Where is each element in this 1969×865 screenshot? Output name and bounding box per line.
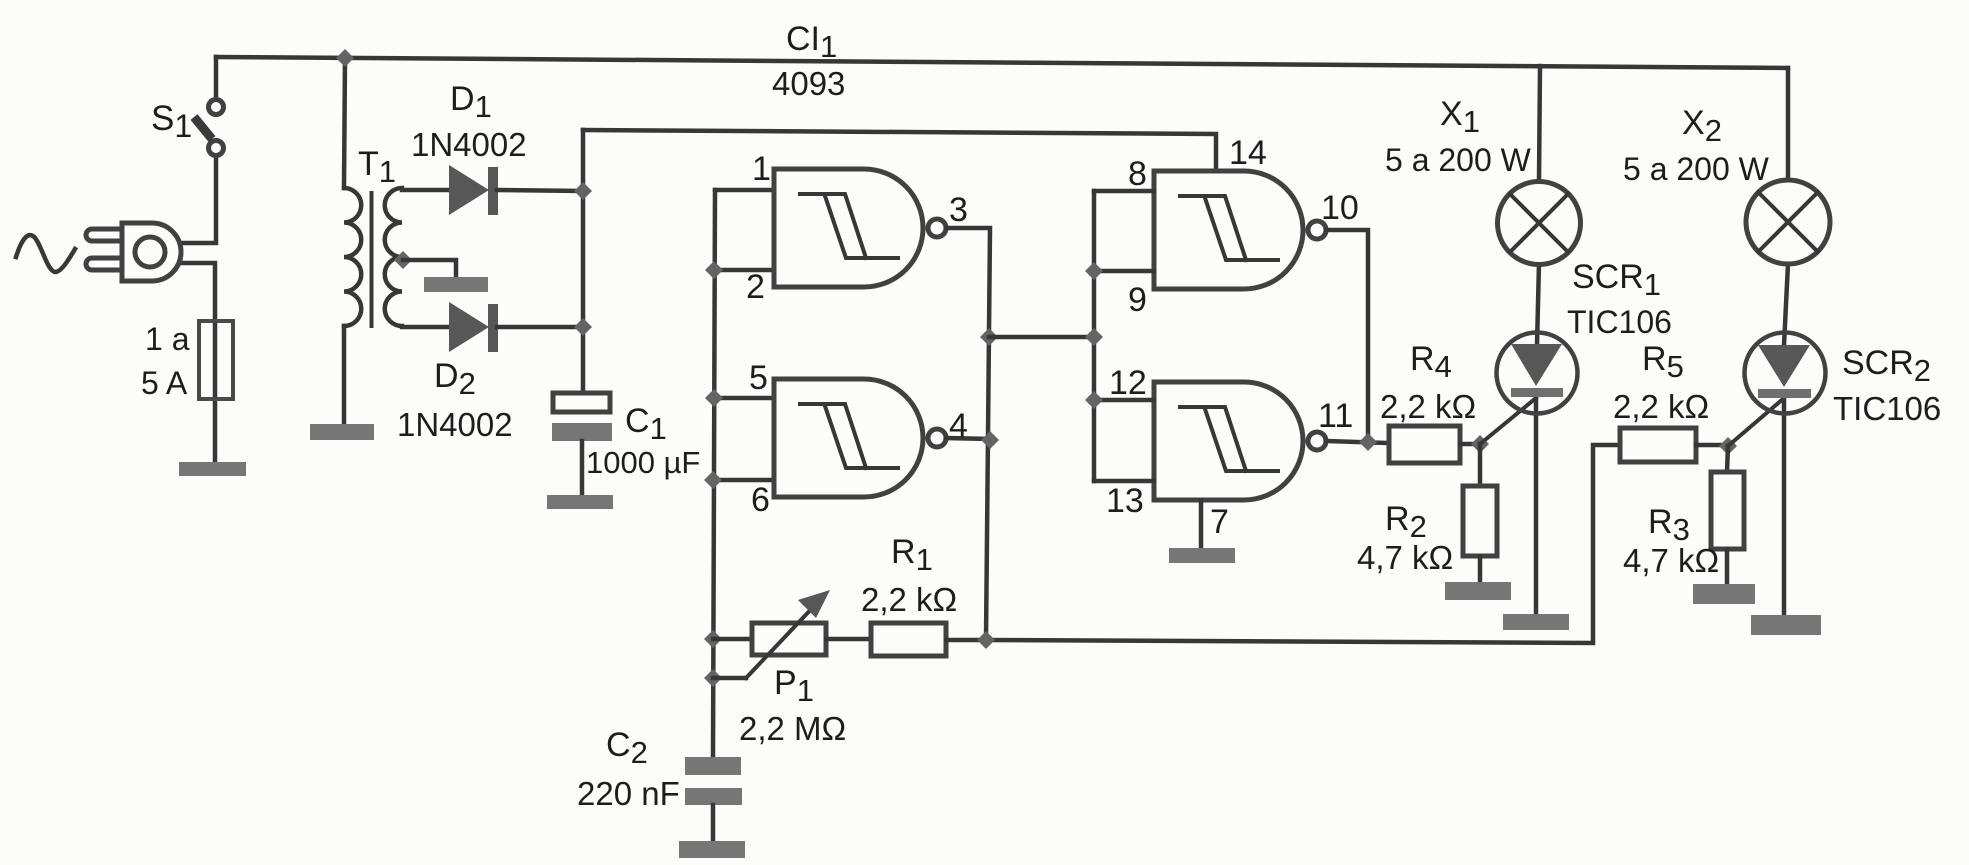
wire pin1 stub xyxy=(715,188,774,193)
node pin2 xyxy=(705,261,723,279)
node pin6 xyxy=(704,471,722,489)
ground SCR2 xyxy=(1751,615,1821,635)
wire R1 right xyxy=(946,638,986,643)
svg-text:9: 9 xyxy=(1128,281,1147,319)
wire SCR2 gate xyxy=(1728,399,1783,446)
wire pin8 stub xyxy=(1094,189,1154,194)
wire plug lower prong to fuse xyxy=(177,263,215,462)
svg-text:4,7 kΩ: 4,7 kΩ xyxy=(1623,542,1719,579)
wire pin7 xyxy=(1199,500,1204,548)
ground pin7 xyxy=(1169,548,1235,563)
wire D2 to rail xyxy=(497,325,583,330)
wire C1 to ground xyxy=(580,441,585,495)
resistor R4 xyxy=(1389,426,1460,463)
wire center tap xyxy=(403,260,456,277)
transformer T1 primary winding xyxy=(344,188,361,326)
svg-text:1000 µF: 1000 µF xyxy=(586,445,700,480)
wire P1 wiper xyxy=(713,676,746,681)
node R1 junction xyxy=(977,631,995,649)
svg-text:12: 12 xyxy=(1109,364,1147,402)
wire P1 to R1 xyxy=(826,637,871,642)
ground plug/fuse xyxy=(179,462,246,476)
gate U1a xyxy=(774,169,946,287)
wire P1 left xyxy=(713,637,752,642)
center tap bar xyxy=(424,277,488,292)
wire pin6 stub xyxy=(713,478,774,483)
svg-text:5 a 200 W: 5 a 200 W xyxy=(1385,142,1532,178)
wire T1 primary bottom xyxy=(342,326,347,424)
svg-text:1 a: 1 a xyxy=(145,321,190,357)
wire X1 branch xyxy=(1536,66,1540,614)
transformer T1 secondary winding xyxy=(385,188,402,326)
svg-text:8: 8 xyxy=(1128,155,1147,193)
resistor R1 xyxy=(871,623,946,656)
wire gate4 output xyxy=(1326,441,1389,443)
ground C1 xyxy=(547,495,613,509)
node P1 wiper xyxy=(704,669,722,687)
node R5 junction xyxy=(1719,437,1737,455)
wire R5 right xyxy=(1696,443,1728,448)
node pin9 xyxy=(1085,262,1103,280)
node center tap xyxy=(394,251,412,269)
resistor R2 xyxy=(1463,486,1497,556)
wire S1 to plug xyxy=(177,155,216,243)
wire feedback bottom xyxy=(986,445,1619,643)
svg-text:2,2 kΩ: 2,2 kΩ xyxy=(861,581,957,618)
fuse F1 xyxy=(199,321,233,399)
node pin11 xyxy=(1359,433,1377,451)
ground R3 xyxy=(1693,584,1755,604)
wire input bus xyxy=(713,190,715,757)
node P1 left xyxy=(704,630,722,648)
svg-text:6: 6 xyxy=(751,481,770,519)
gate U1c xyxy=(1154,171,1326,289)
node pin12 xyxy=(1085,391,1103,409)
svg-text:4,7 kΩ: 4,7 kΩ xyxy=(1357,539,1453,576)
svg-text:2: 2 xyxy=(746,268,765,306)
AC plug body xyxy=(86,229,126,241)
lamp X1 xyxy=(1498,182,1581,265)
wire gate3 output xyxy=(1326,230,1368,442)
wire pin13 stub xyxy=(1094,479,1154,484)
wire pin14 rail xyxy=(583,130,1216,171)
wire gate2 output xyxy=(946,438,990,439)
ground R2 xyxy=(1445,582,1511,600)
wire X2 branch xyxy=(1784,68,1788,615)
svg-text:13: 13 xyxy=(1106,482,1144,520)
wire R4 to R2 xyxy=(1478,444,1483,486)
svg-text:1N4002: 1N4002 xyxy=(397,406,513,443)
ground C2 xyxy=(679,841,745,858)
svg-text:1N4002: 1N4002 xyxy=(411,126,527,163)
resistor R5 xyxy=(1620,428,1696,462)
wire R4 right xyxy=(1460,442,1480,447)
svg-text:2,2 MΩ: 2,2 MΩ xyxy=(739,710,846,747)
wire pin2 stub xyxy=(714,268,774,273)
diode D1 xyxy=(449,165,489,215)
wire pin5 stub xyxy=(714,396,774,401)
svg-text:14: 14 xyxy=(1229,134,1267,172)
diode D2 xyxy=(449,302,489,352)
svg-text:4093: 4093 xyxy=(772,65,845,102)
switch S1 xyxy=(209,100,224,115)
svg-text:2,2 kΩ: 2,2 kΩ xyxy=(1380,388,1476,425)
svg-text:7: 7 xyxy=(1210,503,1229,541)
wire R5 to R3 xyxy=(1727,446,1728,472)
SCR1 xyxy=(1497,333,1578,414)
svg-text:4: 4 xyxy=(949,407,968,445)
svg-text:2,2 kΩ: 2,2 kΩ xyxy=(1613,388,1709,425)
svg-text:5 a 200 W: 5 a 200 W xyxy=(1623,151,1770,187)
wire right input bus xyxy=(1092,191,1097,481)
gate U1b xyxy=(774,379,946,497)
node top T1 xyxy=(336,49,354,67)
wire D1 to rail xyxy=(497,190,583,191)
wire top rail xyxy=(216,57,1788,68)
capacitor C1 xyxy=(553,393,610,412)
node D2 junction xyxy=(574,318,592,336)
node R4 junction xyxy=(1471,435,1489,453)
svg-text:5 A: 5 A xyxy=(141,365,188,401)
node out bus upper xyxy=(980,328,998,346)
AC sine squiggle xyxy=(16,235,75,272)
ground T1 xyxy=(310,424,374,440)
svg-text:10: 10 xyxy=(1321,189,1359,227)
wire cross link xyxy=(989,335,1094,340)
capacitor C2 xyxy=(685,757,741,775)
svg-text:5: 5 xyxy=(749,359,768,397)
P1 wiper arrow xyxy=(746,602,818,678)
svg-text:TIC106: TIC106 xyxy=(1833,390,1941,427)
wire secondary top lead xyxy=(402,188,447,193)
wire pin12 stub xyxy=(1094,398,1154,403)
svg-text:1: 1 xyxy=(752,150,771,188)
svg-text:220 nF: 220 nF xyxy=(577,775,680,812)
svg-text:3: 3 xyxy=(949,191,968,229)
wire secondary bottom lead xyxy=(402,325,447,330)
resistor R3 xyxy=(1711,472,1744,549)
node out bus lower xyxy=(981,431,999,449)
wire SCR1 gate xyxy=(1480,398,1536,444)
wire gate1 output xyxy=(946,228,990,640)
wire R2 to ground xyxy=(1478,556,1483,582)
svg-text:11: 11 xyxy=(1318,397,1353,435)
node D1 junction xyxy=(574,182,592,200)
lamp X2 xyxy=(1746,180,1830,264)
wire T1 primary top xyxy=(344,58,345,188)
potentiometer P1 xyxy=(752,623,826,655)
SCR2 xyxy=(1745,333,1826,414)
wire C2 to ground xyxy=(711,805,716,842)
node pin5 xyxy=(705,389,723,407)
wire top rail to S1 xyxy=(214,57,219,100)
svg-text:TIC106: TIC106 xyxy=(1567,304,1672,340)
ground SCR1 xyxy=(1503,614,1569,630)
gate U1d xyxy=(1154,382,1326,500)
wire dc rail vertical xyxy=(581,130,586,393)
node bus mid xyxy=(1085,328,1103,346)
wire R3 to ground xyxy=(1725,549,1730,584)
transformer T1 core xyxy=(370,193,374,326)
wire pin9 stub xyxy=(1094,269,1154,274)
